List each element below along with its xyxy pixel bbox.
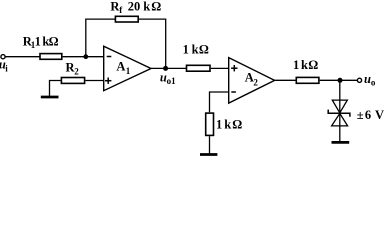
svg-text:k: k [301,58,308,72]
wire junction up to Rf [86,19,116,57]
wire vertical resistor to ground [209,136,211,153]
wire R2 left to ground [50,81,61,97]
wire A2 minus input to vertical resistor [210,92,229,112]
wire mid resistor to A2 plus input [211,67,229,69]
wire node down through zener [339,80,341,141]
svg-text:1: 1 [35,35,41,49]
wire Rf down to output node [139,19,166,68]
label R1 1 kOhm [23,35,59,50]
svg-text:1: 1 [293,58,299,72]
resistor 1k mid [187,65,211,71]
resistor R2 [61,78,84,84]
node u_o1 [163,66,168,71]
svg-text:±: ± [357,108,364,122]
zener diode upper (pointing down) [332,100,347,113]
label u_i [0,58,8,74]
svg-text:1: 1 [183,43,189,57]
minus sign A1 [107,56,112,58]
svg-text:Ω: Ω [232,118,242,132]
zener cathode bar with tails [328,110,350,117]
svg-text:Ω: Ω [199,43,209,57]
svg-text:A: A [116,59,125,73]
op-amp A2 [229,58,275,104]
svg-text:20: 20 [128,0,141,13]
svg-text:V: V [375,108,384,122]
svg-text:k: k [192,43,199,57]
plus sign A2 [231,65,237,71]
svg-text:1: 1 [126,66,131,76]
wire A1 output [151,67,187,69]
label 1 kOhm vertical [216,118,242,132]
wire R2 to A1 plus input [85,80,103,82]
zener diode lower (pointing up) [332,113,348,126]
output terminal u_o [357,78,361,82]
wire output resistor to terminal [320,79,358,81]
label Rf 20 kOhm [110,0,161,15]
label R2 [66,61,80,77]
svg-text:o1: o1 [167,76,177,86]
resistor 1k vertical [206,113,214,135]
resistor R1 [40,54,62,60]
label A1 [116,59,130,76]
label A2 [245,70,259,87]
label +/- 6 V [357,108,384,122]
minus sign A2 [231,91,236,93]
node output junction [338,78,343,83]
resistor 1k output [296,77,319,83]
svg-text:2: 2 [253,78,258,88]
ground (left) [41,96,59,99]
op-amp A1 [104,46,151,90]
ground (right) [332,141,350,144]
wire A2 output [275,79,297,81]
label u_o [364,72,376,88]
input terminal u_i [1,55,5,59]
svg-text:Ω: Ω [151,0,161,13]
plus sign A1 [105,78,111,84]
svg-text:6: 6 [365,108,371,122]
ground (middle) [200,153,217,156]
svg-text:A: A [245,70,254,84]
wire input to R1 [5,56,40,58]
svg-text:Ω: Ω [49,35,59,49]
wire R1 to A1 inverting input [63,56,104,58]
label 1 kOhm mid [183,43,209,57]
label u_o1 [160,71,176,87]
svg-text:2: 2 [74,67,79,77]
svg-text:Ω: Ω [308,58,318,72]
svg-text:k: k [143,0,150,13]
svg-text:k: k [224,118,231,132]
node junction at inverting input [83,54,88,59]
svg-text:1: 1 [216,118,222,132]
svg-text:o: o [371,78,376,88]
label 1 kOhm output [293,58,318,72]
resistor Rf [115,16,138,22]
